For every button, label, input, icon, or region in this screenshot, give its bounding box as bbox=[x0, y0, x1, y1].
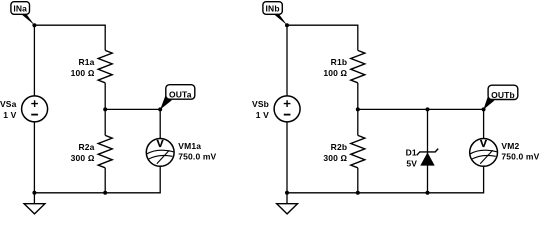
svg-text:D1: D1 bbox=[406, 147, 417, 157]
voltmeter VM1a bbox=[146, 139, 174, 167]
svg-text:750.0 mV: 750.0 mV bbox=[178, 151, 216, 161]
voltage source VSa bbox=[22, 96, 48, 122]
junction node INa bbox=[32, 23, 36, 27]
ground (right circuit) bbox=[277, 193, 298, 214]
svg-text:OUTa: OUTa bbox=[169, 89, 192, 99]
svg-text:R1a: R1a bbox=[78, 57, 94, 67]
wire top net INb to R1b branch bbox=[287, 25, 358, 50]
svg-text:R2a: R2a bbox=[78, 142, 94, 152]
voltmeter VM2 bbox=[470, 139, 498, 167]
resistor R2b bbox=[351, 135, 365, 167]
junction node OUTb bbox=[482, 107, 486, 111]
resistor R1b bbox=[351, 50, 365, 82]
wire D1 branch bbox=[427, 109, 429, 192]
wire VSb top lead bbox=[286, 25, 288, 96]
node flag OUTb bbox=[483, 85, 517, 109]
svg-text:V: V bbox=[157, 139, 164, 150]
svg-text:1 V: 1 V bbox=[3, 110, 16, 120]
svg-text:300 Ω: 300 Ω bbox=[71, 153, 95, 163]
junction VSb to ground net bbox=[285, 191, 289, 195]
svg-text:INb: INb bbox=[266, 4, 280, 14]
resistor R1a bbox=[98, 50, 112, 82]
junction R2b to ground net bbox=[356, 191, 360, 195]
resistor R2a bbox=[98, 135, 112, 167]
svg-text:5V: 5V bbox=[406, 159, 417, 169]
junction VSa to ground net bbox=[32, 191, 36, 195]
wire VM1a bottom lead and bottom net bbox=[34, 166, 160, 193]
wire top net INa to R1a branch bbox=[34, 25, 105, 50]
zener diode D1 bbox=[417, 149, 438, 166]
wire middle net to VM2 bbox=[358, 109, 484, 138]
wire VM2 bottom lead and bottom net bbox=[287, 166, 484, 193]
svg-text:VM1a: VM1a bbox=[178, 141, 201, 151]
junction R1b-R2b middle node bbox=[356, 107, 360, 111]
voltage source VSb bbox=[274, 96, 300, 122]
wire VSa bottom lead bbox=[33, 122, 35, 193]
svg-text:R1b: R1b bbox=[331, 57, 348, 67]
svg-text:100 Ω: 100 Ω bbox=[323, 68, 347, 78]
svg-text:OUTb: OUTb bbox=[491, 90, 515, 100]
wire between R1a and R2a bbox=[104, 83, 106, 136]
svg-text:R2b: R2b bbox=[331, 142, 348, 152]
junction node OUTa bbox=[158, 107, 162, 111]
svg-text:100 Ω: 100 Ω bbox=[71, 68, 95, 78]
wire R2b bottom lead bbox=[357, 168, 359, 193]
junction D1 top node bbox=[426, 107, 430, 111]
svg-text:VM2: VM2 bbox=[501, 141, 519, 151]
node flag INa bbox=[11, 2, 35, 26]
junction R1a-R2a middle node bbox=[103, 107, 107, 111]
node flag INb bbox=[263, 2, 287, 26]
junction D1 bottom node bbox=[426, 191, 430, 195]
junction node INb bbox=[285, 23, 289, 27]
svg-text:750.0 mV: 750.0 mV bbox=[501, 151, 539, 161]
svg-text:VSa: VSa bbox=[0, 99, 17, 109]
wire between R1b and R2b bbox=[357, 83, 359, 136]
junction R2a to ground net bbox=[103, 191, 107, 195]
ground (left circuit) bbox=[24, 193, 45, 214]
wire VSb bottom lead bbox=[286, 122, 288, 193]
svg-text:INa: INa bbox=[13, 4, 27, 14]
svg-text:V: V bbox=[480, 139, 487, 150]
wire R2a bottom lead bbox=[104, 168, 106, 193]
wire VSa top lead bbox=[33, 25, 35, 96]
node flag OUTa bbox=[160, 85, 195, 110]
svg-text:VSb: VSb bbox=[252, 99, 269, 109]
svg-text:300 Ω: 300 Ω bbox=[323, 153, 347, 163]
wire middle net to VM1a bbox=[105, 109, 160, 138]
svg-text:1 V: 1 V bbox=[256, 110, 269, 120]
